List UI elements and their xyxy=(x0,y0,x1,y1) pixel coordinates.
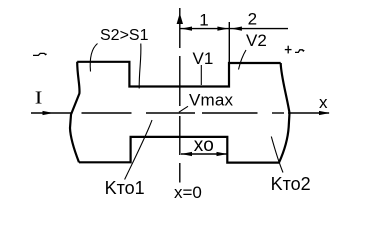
svg-text:S2>S1: S2>S1 xyxy=(100,27,149,44)
svg-text:Vmax: Vmax xyxy=(189,91,234,110)
svg-text:x: x xyxy=(319,93,328,112)
svg-text:Kто2: Kто2 xyxy=(271,174,311,194)
svg-text:V1: V1 xyxy=(193,49,214,68)
svg-text:I: I xyxy=(35,88,43,108)
svg-text:1: 1 xyxy=(199,11,208,30)
svg-text:x=0: x=0 xyxy=(174,183,202,202)
svg-text:xo: xo xyxy=(194,135,214,156)
svg-text:V2: V2 xyxy=(246,31,267,50)
svg-text:Kто1: Kто1 xyxy=(105,178,145,198)
svg-text:2: 2 xyxy=(248,10,257,29)
